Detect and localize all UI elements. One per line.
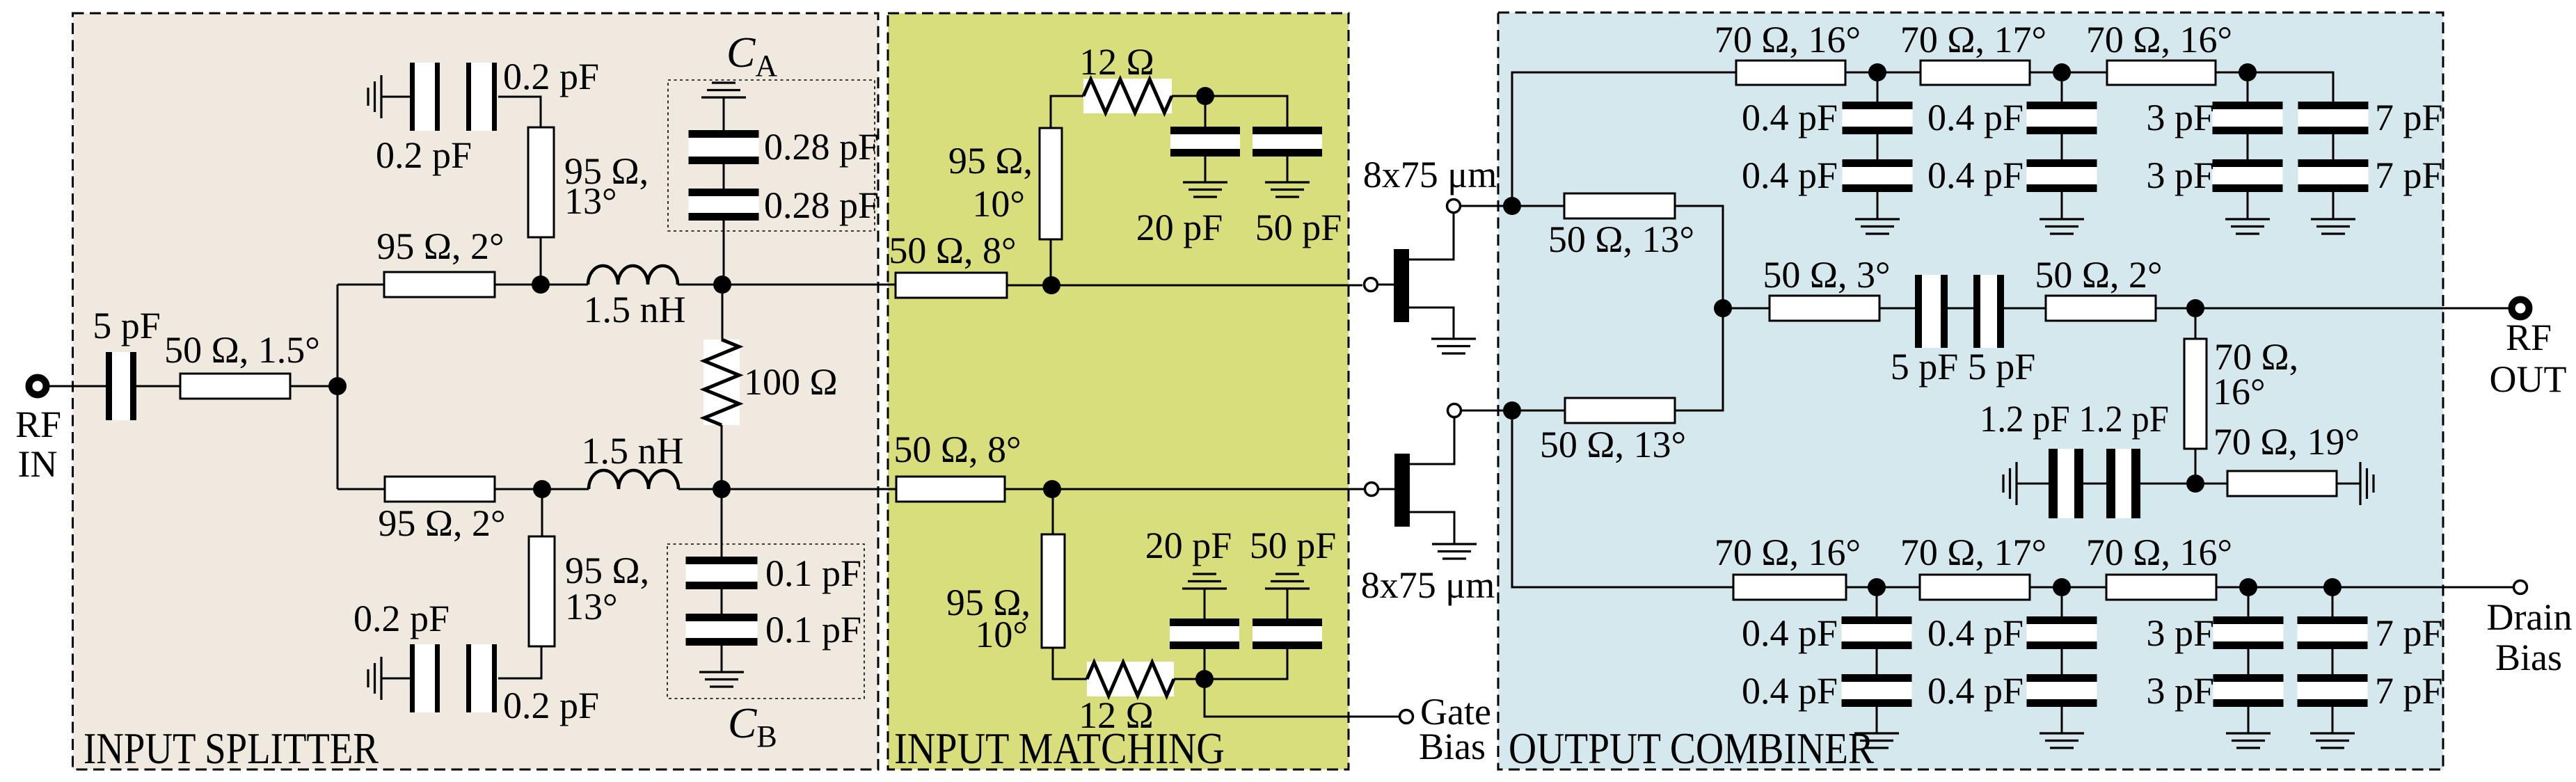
capacitor CU2a 0.4 pF xyxy=(2027,102,2097,134)
wire C7 to ground xyxy=(1287,589,1289,619)
wire TL10 to node N12 xyxy=(1845,72,1877,74)
wire C2 to ground xyxy=(381,96,410,98)
wire N9 to C7 xyxy=(1204,649,1287,679)
wire N8 to TL9 xyxy=(1052,489,1054,534)
svg-text:70 Ω, 17°: 70 Ω, 17° xyxy=(1900,532,2046,573)
dotted box C_A xyxy=(668,80,875,231)
svg-text:1.5 nH: 1.5 nH xyxy=(582,430,684,472)
gate terminal circle Q1 xyxy=(1365,278,1378,292)
svg-text:7 pF: 7 pF xyxy=(2375,670,2443,712)
ground below CL3 xyxy=(2226,733,2271,748)
inductor L2 1.5 nH lower xyxy=(589,470,678,489)
wire CL4 stub3 xyxy=(2332,707,2334,733)
wire L2 to node N4 xyxy=(678,488,713,490)
label 8x75 um upper xyxy=(1363,154,1497,195)
wire CL2 stub2 xyxy=(2061,649,2063,674)
label 7 pF CU4a xyxy=(2375,97,2443,138)
capacitor C3 0.2 pF + 0.2 pF series lower xyxy=(410,644,497,712)
capacitor CB1 0.1 pF xyxy=(686,557,758,589)
capacitor CA1 0.28 pF xyxy=(689,130,759,164)
label 0.4 pF CL1a xyxy=(1742,612,1838,654)
label 50 ohm 8deg upper xyxy=(889,230,1016,271)
label 0.28 pF second xyxy=(764,184,879,226)
svg-text:95 Ω,: 95 Ω, xyxy=(948,140,1033,182)
wire R2 to node N7 xyxy=(1172,95,1197,97)
label C_B xyxy=(728,700,777,753)
wire TL7 to R2 xyxy=(1051,96,1083,128)
label RF IN line2 xyxy=(18,443,58,485)
ground below CL4 xyxy=(2310,733,2355,748)
ground below C_B xyxy=(699,672,744,687)
wire CU3 stub1 xyxy=(2247,81,2249,102)
svg-text:50 pF: 50 pF xyxy=(1255,207,1342,248)
svg-text:0.2 pF: 0.2 pF xyxy=(503,56,599,97)
wire CU2 stub3 xyxy=(2061,192,2063,219)
capacitor CU4a 7 pF xyxy=(2298,102,2369,134)
capacitor C9 1.2 pF + 1.2 pF series xyxy=(2049,449,2140,518)
node N18 xyxy=(2186,474,2204,493)
label 70 ohm 16deg lower1 xyxy=(1715,532,1861,573)
label 16deg vert b xyxy=(2213,371,2266,413)
wire TL6 to Q1 gate xyxy=(1007,285,1362,287)
label 0.4 pF CU1b xyxy=(1742,154,1838,196)
port RF OUT xyxy=(2512,300,2529,317)
transmission line TL18 70 ohm 19deg xyxy=(2227,471,2337,496)
svg-text:12 Ω: 12 Ω xyxy=(1079,41,1154,83)
title INPUT MATCHING xyxy=(894,724,1225,773)
transmission line TL1 50 ohm 1.5deg xyxy=(180,374,290,399)
transmission line TL16 50 ohm 2deg xyxy=(2046,296,2156,321)
ground below Q1 source xyxy=(1431,339,1476,353)
node N5 lower xyxy=(533,480,551,498)
wire TL8 to Q2 gate xyxy=(1005,488,1364,490)
capacitor CA2 0.28 pF xyxy=(689,189,759,221)
svg-text:95 Ω, 2°: 95 Ω, 2° xyxy=(376,225,504,267)
resistor R3 12 ohm lower xyxy=(1087,662,1174,696)
wire TL20 to node N20 xyxy=(2030,586,2062,589)
label 1.5 nH upper xyxy=(584,289,686,330)
wire CU2 stub1 xyxy=(2061,81,2063,102)
label 0.4 pF CU2b xyxy=(1927,154,2024,196)
svg-text:50 Ω, 13°: 50 Ω, 13° xyxy=(1540,424,1686,465)
label 70 ohm 17deg upper xyxy=(1900,19,2046,61)
capacitor CU2b 0.4 pF xyxy=(2027,159,2097,192)
capacitor C6 20 pF lower xyxy=(1170,619,1239,649)
svg-text:20 pF: 20 pF xyxy=(1145,525,1232,566)
wire gate circle to Q2 xyxy=(1379,488,1394,490)
label 95 ohm 2deg lower xyxy=(378,502,505,544)
node N21 xyxy=(2239,578,2257,596)
svg-text:0.4 pF: 0.4 pF xyxy=(1742,612,1838,654)
wire CA2 to N3 xyxy=(723,221,725,285)
resistor R1 100 ohm xyxy=(703,340,740,425)
label C_A xyxy=(726,29,777,83)
svg-text:7 pF: 7 pF xyxy=(2375,154,2443,196)
label 0.2 pF upper right xyxy=(503,56,599,97)
wire TL3 to C2 xyxy=(498,97,541,127)
capacitor CB2 0.1 pF xyxy=(686,614,758,646)
wire CB1 to CB2 xyxy=(721,589,723,614)
title OUTPUT COMBINER xyxy=(1509,724,1874,773)
wire Q2 drain to node N11 xyxy=(1462,410,1503,412)
wire N16 to TL15 xyxy=(1723,308,1770,310)
svg-text:13°: 13° xyxy=(564,180,617,222)
transmission line TL5 95 ohm 13deg lower stub xyxy=(529,536,555,646)
label 50 pF lower xyxy=(1250,525,1337,566)
wire ground to C9 xyxy=(2017,483,2049,485)
wire N5 to L2 xyxy=(551,488,589,490)
svg-text:70 Ω, 16°: 70 Ω, 16° xyxy=(1715,19,1861,61)
inductor L1 1.5 nH upper xyxy=(588,266,678,285)
transmission line TL13 50 ohm 13deg upper xyxy=(1564,193,1675,218)
label Drain xyxy=(2487,596,2573,638)
OUTPUT COMBINER region box xyxy=(1498,13,2443,769)
ground above C6 xyxy=(1182,574,1227,589)
label 7 pF CL4a xyxy=(2375,612,2443,654)
INPUT MATCHING region box xyxy=(888,13,1349,769)
svg-text:1.2 pF 1.2 pF: 1.2 pF 1.2 pF xyxy=(1980,398,2169,440)
capacitor C7 50 pF lower xyxy=(1253,619,1322,649)
label Gate xyxy=(1420,691,1491,733)
transmission line TL6 50 ohm 8deg upper xyxy=(896,273,1007,298)
wire N21 to Drain Bias xyxy=(2248,586,2513,589)
wire between C8 caps xyxy=(1948,308,1973,310)
label RF IN line1 xyxy=(15,404,61,445)
capacitor CL4b 7 pF xyxy=(2298,674,2368,707)
svg-text:5 pF 5 pF: 5 pF 5 pF xyxy=(1891,346,2036,388)
wire CL2 stub1 xyxy=(2061,596,2063,616)
svg-text:12 Ω: 12 Ω xyxy=(1079,694,1154,736)
label 95 ohm 10deg upper a xyxy=(948,140,1033,182)
label 0.2 pF lower right xyxy=(503,685,599,726)
transmission line TL19 70 ohm 16deg lower1 xyxy=(1733,575,1846,600)
svg-text:INPUT SPLITTER: INPUT SPLITTER xyxy=(84,724,379,773)
ground left of C2 xyxy=(368,75,381,118)
svg-text:0.28 pF: 0.28 pF xyxy=(764,126,879,168)
label 50 ohm 8deg lower xyxy=(893,429,1021,470)
svg-text:0.4 pF: 0.4 pF xyxy=(1742,154,1838,196)
svg-text:8x75 μm: 8x75 μm xyxy=(1361,564,1495,606)
title INPUT SPLITTER xyxy=(84,724,379,773)
svg-text:0.4 pF: 0.4 pF xyxy=(1927,612,2024,654)
svg-text:0.2 pF: 0.2 pF xyxy=(376,134,472,176)
capacitor C4 20 pF upper xyxy=(1170,127,1240,157)
svg-text:50 Ω, 13°: 50 Ω, 13° xyxy=(1548,218,1694,260)
wire N10 to TL13 xyxy=(1521,205,1564,207)
wire Q1 drain to node N10 xyxy=(1461,205,1504,207)
dotted box C_B xyxy=(667,544,864,699)
svg-text:13°: 13° xyxy=(565,586,618,628)
label 70 ohm 16deg lower2 xyxy=(2086,532,2232,573)
capacitor CU4b 7 pF xyxy=(2298,159,2369,192)
wire R3 to node N9 xyxy=(1174,678,1196,680)
label 1.2 pF 1.2 pF xyxy=(1980,398,2169,440)
label 0.28 pF first xyxy=(764,126,879,168)
wire CL1 stub2 xyxy=(1876,649,1878,674)
transmission line TL7 95 ohm 10deg upper xyxy=(1040,128,1062,239)
svg-text:50 Ω, 2°: 50 Ω, 2° xyxy=(2035,254,2162,296)
node N6 matching upper xyxy=(1042,276,1060,294)
transmission line TL3 95 ohm 13deg upper stub xyxy=(528,127,554,237)
wire C6 to ground xyxy=(1204,589,1206,619)
svg-text:1.5 nH: 1.5 nH xyxy=(584,289,686,330)
capacitor CU3a 3 pF xyxy=(2213,102,2283,134)
wire C4 to ground xyxy=(1204,157,1207,182)
svg-text:Bias: Bias xyxy=(2495,637,2562,678)
wire N4 to CB1 xyxy=(721,489,723,557)
svg-text:70 Ω, 16°: 70 Ω, 16° xyxy=(1715,532,1861,573)
ground below CU2 xyxy=(2040,219,2084,234)
svg-text:3 pF: 3 pF xyxy=(2146,97,2214,138)
wire N13 to TL12 xyxy=(2062,72,2107,74)
wire N2 to TL3 xyxy=(540,237,542,285)
drain terminal circle Q1 xyxy=(1447,200,1461,213)
wire CL1 stub1 xyxy=(1876,596,1878,616)
label 20 pF lower xyxy=(1145,525,1232,566)
wire N9 to C6 xyxy=(1204,649,1206,679)
label 0.2 pF lower left xyxy=(353,598,450,639)
port Gate Bias xyxy=(1400,710,1413,724)
wire N10 to TL10 xyxy=(1512,72,1736,206)
wire N9 to Gate Bias port xyxy=(1204,679,1399,717)
svg-text:OUT: OUT xyxy=(2490,358,2567,400)
label 10deg upper b xyxy=(972,183,1025,225)
wire CL1 stub3 xyxy=(1876,707,1878,733)
svg-text:5 pF: 5 pF xyxy=(93,305,161,346)
drain terminal circle Q2 xyxy=(1448,404,1461,417)
ground below C5 xyxy=(1265,182,1310,197)
svg-text:3 pF: 3 pF xyxy=(2146,154,2214,196)
node N10 upper drain xyxy=(1503,197,1521,215)
label 70 ohm vert a xyxy=(2214,336,2298,378)
wire N17 to TL17 xyxy=(2195,317,2197,339)
label 95 ohm 2deg upper xyxy=(376,225,504,267)
svg-text:3 pF: 3 pF xyxy=(2146,670,2214,712)
label 0.1 pF first xyxy=(765,552,861,594)
node N2 upper xyxy=(532,276,550,294)
svg-text:10°: 10° xyxy=(972,183,1025,225)
wire N17 to RF OUT xyxy=(2204,308,2509,310)
wire C1 to TL1 xyxy=(136,385,180,388)
transmission line TL12 70 ohm 16deg upper2 xyxy=(2107,61,2216,85)
wire TL17 to node N18 xyxy=(2195,449,2197,474)
ground left of C3 xyxy=(368,657,381,700)
wire N18 to TL18 xyxy=(2204,483,2227,485)
wire TL15 to C8 xyxy=(1879,308,1915,310)
svg-text:8x75 μm: 8x75 μm xyxy=(1363,154,1497,195)
label 5 pF 5 pF xyxy=(1891,346,2036,388)
label 70 ohm 17deg lower xyxy=(1900,532,2046,573)
node N14 xyxy=(2239,63,2257,81)
capacitor CL3b 3 pF xyxy=(2213,674,2284,707)
label 95 ohm lower stub xyxy=(565,550,649,591)
label Bias (drain) xyxy=(2495,637,2562,678)
wire C3 to ground xyxy=(381,678,410,680)
label 50 pF upper xyxy=(1255,207,1342,248)
svg-text:0.2 pF: 0.2 pF xyxy=(503,685,599,726)
svg-text:20 pF: 20 pF xyxy=(1136,207,1223,248)
svg-text:0.4 pF: 0.4 pF xyxy=(1742,670,1838,712)
capacitor C8 5 pF + 5 pF series xyxy=(1915,275,2004,348)
wire TL19 to node N19 xyxy=(1846,586,1877,589)
wire TL13 to node N16 xyxy=(1675,206,1723,308)
node N11 lower drain xyxy=(1503,401,1521,420)
node N16 combiner xyxy=(1714,299,1732,317)
svg-text:RF: RF xyxy=(15,404,61,445)
capacitor CL1b 0.4 pF xyxy=(1842,674,1912,707)
svg-text:70 Ω, 16°: 70 Ω, 16° xyxy=(2086,532,2232,573)
wire N14 to shunt cap column U4 xyxy=(2248,72,2333,102)
node N1 splitter junction xyxy=(328,377,347,395)
ground below CL1 xyxy=(1854,733,1899,748)
label 0.4 pF CL2b xyxy=(1927,670,2024,712)
transmission line TL20 70 ohm 17deg lower xyxy=(1920,575,2030,600)
capacitor CL4a 7 pF xyxy=(2298,616,2368,649)
wire N20 to TL21 xyxy=(2062,586,2106,589)
wire TL14 to node N16 xyxy=(1675,308,1723,410)
label 70 ohm 19deg xyxy=(2213,421,2360,463)
label 3 pF CL3b xyxy=(2146,670,2214,712)
node N8 matching lower xyxy=(1043,480,1061,498)
ground below CU4 xyxy=(2311,219,2355,234)
svg-text:0.2 pF: 0.2 pF xyxy=(353,598,450,639)
svg-text:7 pF: 7 pF xyxy=(2375,97,2443,138)
svg-text:95 Ω,: 95 Ω, xyxy=(565,550,649,591)
transmission line TL14 50 ohm 13deg lower xyxy=(1565,398,1675,423)
wire N7 to C5 xyxy=(1205,96,1287,127)
node N12 xyxy=(1868,63,1886,81)
gate terminal circle Q2 xyxy=(1365,483,1378,496)
wire N11 to TL14 xyxy=(1521,410,1565,412)
ground above C7 xyxy=(1265,574,1310,589)
svg-text:50 Ω, 1.5°: 50 Ω, 1.5° xyxy=(164,329,320,371)
label 0.4 pF CL2a xyxy=(1927,612,2024,654)
wire L1 to node N3 xyxy=(678,284,713,286)
node N4 lower xyxy=(713,480,731,498)
transmission line TL8 50 ohm 8deg lower xyxy=(896,477,1005,502)
capacitor CL2a 0.4 pF xyxy=(2027,616,2097,649)
label 20 pF upper xyxy=(1136,207,1223,248)
label RF OUT line2 xyxy=(2490,358,2567,400)
label 0.2 pF upper left xyxy=(376,134,472,176)
label 0.1 pF second xyxy=(765,609,861,651)
wire TL9 to R3 xyxy=(1053,648,1087,679)
label 10deg lower b xyxy=(975,614,1028,655)
ground above C_A xyxy=(701,83,746,97)
svg-text:70 Ω, 16°: 70 Ω, 16° xyxy=(2086,19,2232,61)
ground right of TL18 xyxy=(2360,462,2374,505)
label 3 pF CL3a xyxy=(2146,612,2214,654)
wire TL18 to ground xyxy=(2337,483,2360,485)
svg-text:7 pF: 7 pF xyxy=(2375,612,2443,654)
wire CL4 stub2 xyxy=(2332,649,2334,674)
wire CU3 stub2 xyxy=(2247,134,2249,159)
ground left of C9 xyxy=(2003,462,2017,505)
label 95 ohm upper stub xyxy=(564,150,649,192)
wire N6 to TL7 xyxy=(1050,239,1052,285)
node N13 xyxy=(2053,63,2071,81)
svg-text:0.4 pF: 0.4 pF xyxy=(1927,154,2024,196)
transistor Q2 8x75 um xyxy=(1394,417,1454,544)
label 50 ohm 1.5deg xyxy=(164,329,320,371)
wire RF IN to C1 xyxy=(46,385,106,388)
capacitor CL3a 3 pF xyxy=(2213,616,2284,649)
port RF IN xyxy=(29,378,47,395)
wire TL16 to node N17 xyxy=(2156,308,2186,310)
wire N7 to C4 xyxy=(1204,96,1207,127)
node N17 output xyxy=(2186,299,2204,317)
wire CU1 stub2 xyxy=(1877,134,1879,159)
label 70 ohm 16deg upper1 xyxy=(1715,19,1861,61)
label 0.4 pF CU2a xyxy=(1927,97,2024,138)
transmission line TL11 70 ohm 17deg upper xyxy=(1921,61,2030,85)
wire TL12 to node N14 xyxy=(2216,72,2248,74)
wire CB2 to ground xyxy=(721,646,723,672)
capacitor CL1a 0.4 pF xyxy=(1842,616,1912,649)
label 50 ohm 13deg lower xyxy=(1540,424,1686,465)
wire CU4 stub1 xyxy=(2332,81,2335,102)
wire CU4 stub2 xyxy=(2332,134,2335,159)
ground below Q2 source xyxy=(1432,544,1477,559)
wire N5 to TL5 xyxy=(541,489,543,536)
label 7 pF CU4b xyxy=(2375,154,2443,196)
label 13deg lower stub xyxy=(565,586,618,628)
label 0.4 pF CL1b xyxy=(1742,670,1838,712)
wire N11 to TL19 xyxy=(1512,420,1733,587)
wire N12 to TL11 xyxy=(1877,72,1921,74)
svg-text:10°: 10° xyxy=(975,614,1028,655)
ground below CU3 xyxy=(2225,219,2270,234)
svg-text:50 Ω, 8°: 50 Ω, 8° xyxy=(889,230,1016,271)
wire TL21 to node N21 xyxy=(2216,586,2248,589)
wire TL4 to node N5 xyxy=(495,488,542,490)
wire CU2 stub2 xyxy=(2061,134,2063,159)
wire N4 to input matching lower xyxy=(722,488,896,490)
svg-text:95 Ω, 2°: 95 Ω, 2° xyxy=(378,502,505,544)
wire N1 to TL4 xyxy=(337,488,385,490)
label 13deg upper stub xyxy=(564,180,617,222)
transmission line TL21 70 ohm 16deg lower2 xyxy=(2106,575,2216,600)
transmission line TL4 95 ohm 2deg lower xyxy=(385,477,495,502)
capacitor C2 0.2 pF + 0.2 pF series upper xyxy=(410,63,497,131)
label 50 ohm 2deg xyxy=(2035,254,2162,296)
node N7 upper xyxy=(1196,87,1214,105)
port Drain Bias xyxy=(2514,581,2527,594)
wire CL4 stub1 xyxy=(2332,596,2334,616)
wire TL2 to node N2 xyxy=(495,284,541,286)
svg-text:0.4 pF: 0.4 pF xyxy=(1927,670,2024,712)
wire CL3 stub1 xyxy=(2248,596,2250,616)
svg-text:16°: 16° xyxy=(2213,371,2266,413)
capacitor CU3b 3 pF xyxy=(2213,159,2283,192)
wire C5 to ground xyxy=(1287,157,1289,182)
wire CU1 stub3 xyxy=(1877,192,1879,219)
svg-text:RF: RF xyxy=(2506,317,2552,358)
capacitor CU1b 0.4 pF xyxy=(1843,159,1913,192)
wire gate circle to Q1 xyxy=(1378,284,1394,286)
label 3 pF CU3a xyxy=(2146,97,2214,138)
label RF OUT line1 xyxy=(2506,317,2552,358)
wire N3 to R1 xyxy=(722,285,724,340)
svg-text:70 Ω, 19°: 70 Ω, 19° xyxy=(2213,421,2360,463)
node N3 upper xyxy=(713,276,731,294)
svg-text:0.4 pF: 0.4 pF xyxy=(1927,97,2024,138)
label 12 ohm lower xyxy=(1079,694,1154,736)
svg-text:3 pF: 3 pF xyxy=(2146,612,2214,654)
label 100 ohm xyxy=(744,361,838,403)
wire N3 to input matching upper xyxy=(722,284,896,286)
wire CL3 stub3 xyxy=(2248,707,2250,733)
